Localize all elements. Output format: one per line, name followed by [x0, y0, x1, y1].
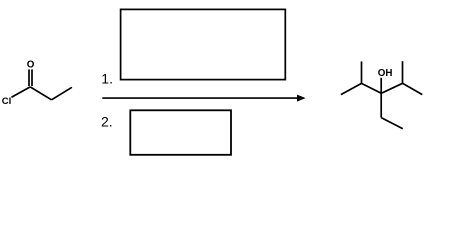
svg-text:O: O: [27, 60, 35, 71]
bond C3-C2 (left isopropyl CH): [362, 83, 382, 93]
bond C2-C3: [30, 87, 51, 100]
double bond C2=O line a: [28, 69, 30, 86]
svg-text:OH: OH: [378, 68, 393, 79]
bond C2-C1 (left terminal methyl): [341, 83, 362, 94]
svg-text:Cl: Cl: [2, 96, 12, 107]
bond Cl-C2: [12, 87, 31, 97]
bond C3-C4 (right isopropyl CH): [381, 83, 402, 93]
reaction arrow head: [298, 95, 305, 101]
svg-text:1.: 1.: [101, 70, 113, 86]
svg-text:2.: 2.: [101, 114, 113, 130]
reaction arrow shaft: [102, 97, 298, 99]
bond C3-CH2 (ethyl down): [380, 93, 382, 117]
reagent box 2: [130, 110, 231, 155]
reagent box 1: [121, 9, 286, 79]
bond C4-C5 (right terminal methyl): [403, 83, 423, 94]
bond CH2-CH3 (ethyl terminal): [381, 118, 403, 129]
double bond C2=O line b: [31, 69, 33, 86]
bond C3-O (to OH): [380, 78, 382, 94]
bond C3-C4: [52, 87, 72, 100]
bond C4-methyl up (right): [402, 61, 404, 83]
bond C2-methyl up (left): [361, 61, 363, 83]
